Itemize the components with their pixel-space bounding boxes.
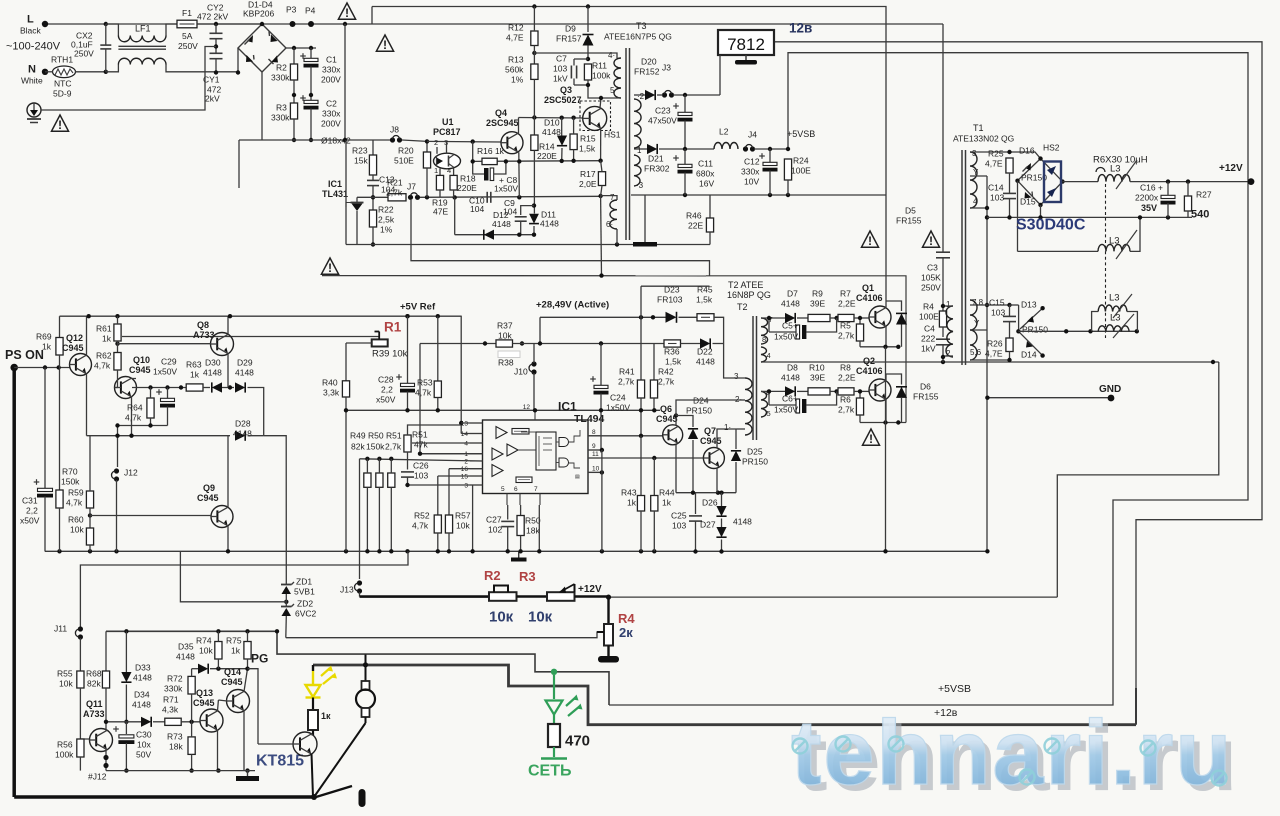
resistor R51b (404, 435, 411, 452)
label t1s 56 (970, 348, 982, 357)
svg-text:C25: C25 (671, 511, 687, 521)
resistor R53 (434, 381, 441, 398)
wire LF1 top lead l (106, 24, 119, 36)
svg-text:FR103: FR103 (657, 295, 683, 305)
junction rail551 449 (447, 549, 451, 553)
wire r72 down (191, 694, 193, 722)
label +5VSB top (787, 129, 815, 139)
wire col373d (372, 227, 374, 245)
svg-text:4148: 4148 (540, 219, 559, 229)
wire em drop (885, 347, 887, 423)
label ATE133N02 QG (953, 134, 1014, 144)
svg-text:39E: 39E (810, 373, 825, 383)
svg-text:D8: D8 (787, 363, 798, 373)
label 470 (565, 733, 590, 750)
label PR150 low (1022, 325, 1048, 335)
wire d33 down (125, 685, 127, 722)
junction rowA 540 (538, 341, 542, 345)
label 220E (457, 183, 477, 193)
svg-text:PR150: PR150 (742, 457, 768, 467)
wire row3 (346, 244, 710, 246)
svg-text:103: 103 (991, 308, 1005, 318)
wire q8 emit (227, 316, 229, 334)
svg-text:C5+: C5+ (782, 321, 798, 331)
capacitor C29 (156, 389, 175, 407)
junction r53 410 (436, 408, 440, 412)
svg-text:5D-9: 5D-9 (53, 89, 72, 99)
resistor R71 (165, 718, 181, 725)
wire T1 core a (961, 150, 963, 365)
svg-text:~100-240V: ~100-240V (6, 41, 61, 53)
transformer T1 sec upper (970, 152, 977, 208)
junction C2 botj (309, 138, 313, 142)
label R72 (167, 674, 183, 684)
wire l3b out (1130, 217, 1140, 251)
wire c5 out (806, 318, 837, 332)
junction 588 59 (586, 57, 590, 61)
wire t1 Y wire (970, 175, 987, 177)
junction q3e (598, 159, 602, 163)
wire c30 down (125, 743, 127, 771)
svg-text:560k: 560k (505, 65, 524, 75)
wire c9 link (521, 206, 534, 215)
svg-text:D29: D29 (237, 358, 253, 368)
terminal P4 (308, 21, 314, 27)
svg-text:9: 9 (592, 443, 596, 450)
junction pret 601 (599, 273, 603, 277)
svg-text:ZD1: ZD1 (296, 577, 312, 587)
svg-text:82k: 82k (351, 442, 365, 452)
wire p9 wire (588, 449, 602, 451)
wire c6 out (806, 391, 837, 405)
svg-text:4148: 4148 (542, 127, 561, 137)
wire r7 out (854, 317, 869, 319)
svg-text:x50V: x50V (20, 516, 40, 526)
junction er 7215 (719, 491, 723, 495)
wire c23 col (684, 95, 686, 112)
wire kt coll (312, 734, 314, 736)
transistor Q10 C945 (115, 377, 137, 399)
resistor R5 (856, 324, 863, 341)
wire t2 p2 wire2 (739, 399, 745, 401)
wire Q4 coll (518, 118, 520, 134)
wire N wire2 (75, 71, 106, 73)
resistor R13 (531, 64, 538, 79)
svg-text:R62: R62 (96, 351, 112, 361)
label Q4 (495, 108, 507, 118)
capacitor C6 (796, 399, 806, 413)
inductor LF1 top (118, 36, 166, 42)
svg-text:Q3: Q3 (560, 85, 572, 95)
wire T1 core b (965, 150, 967, 365)
label J10 (514, 367, 528, 377)
wire fan drop (365, 655, 367, 682)
junction rail551 507.7 (506, 549, 510, 553)
wire c25 down (695, 521, 697, 552)
wire em drop2 (885, 423, 887, 552)
wire r50 up (378, 459, 380, 473)
wire r17 bot (601, 186, 602, 197)
label 250V (178, 41, 198, 51)
svg-text:2,5k: 2,5k (378, 215, 395, 225)
svg-text:11: 11 (592, 451, 599, 458)
svg-text:C7: C7 (556, 54, 567, 64)
wire pg to kt (248, 669, 259, 744)
wire 454 down (454, 197, 456, 234)
junction 987 305 (985, 303, 989, 307)
junction R2 top (292, 46, 296, 50)
junction ref rail 407 (405, 314, 409, 318)
junction 987 217 (985, 215, 989, 219)
IC U2 TL494 box (483, 420, 589, 494)
label C28 (378, 375, 394, 385)
wire c30 col (125, 722, 127, 734)
svg-text:Q7: Q7 (704, 426, 716, 436)
wire q11 coll (105, 722, 107, 731)
wire r57 col (448, 469, 450, 515)
label 4 (608, 51, 615, 60)
junction C1 top (309, 46, 313, 50)
label D33 (135, 663, 151, 673)
label 1x50Vc6 (774, 405, 798, 415)
svg-text:R25: R25 (988, 149, 1004, 159)
junction p9 dot (600, 448, 604, 452)
wire vert 372 (371, 7, 373, 25)
junction crow 181 (179, 385, 183, 389)
svg-text:HS1: HS1 (604, 130, 621, 140)
junction r5 860 (858, 316, 862, 320)
wire r75 down (247, 659, 249, 669)
junction trio3 top (389, 457, 393, 461)
svg-text:D25: D25 (747, 447, 763, 457)
junction CY mid (214, 44, 218, 48)
svg-text:4148: 4148 (203, 368, 222, 378)
svg-text:D34: D34 (134, 690, 150, 700)
label 1% (511, 75, 524, 85)
junction t1p2 (941, 355, 945, 359)
label R6X30 (1093, 154, 1148, 165)
wire base row (473, 160, 601, 163)
wire +12V wire (1063, 181, 1099, 183)
label 10k (498, 331, 512, 341)
label 82k r68 (87, 679, 101, 689)
junction c24 410 (599, 408, 603, 412)
resistor R55 (77, 671, 84, 688)
wire r70 col (59, 368, 61, 491)
label 104 (381, 185, 395, 195)
wire primary return (322, 275, 706, 277)
svg-text:Q10: Q10 (133, 355, 150, 365)
wire r51 down (390, 487, 392, 551)
svg-text:C945: C945 (700, 436, 722, 446)
wire j12 down (116, 480, 118, 552)
label C3 (927, 263, 938, 273)
label 2,2 c31 (26, 506, 38, 516)
svg-text:·3: ·3 (636, 181, 644, 190)
svg-text:ATEE16N7P5 QG: ATEE16N7P5 QG (604, 32, 672, 42)
junction r27 top (1186, 179, 1190, 183)
svg-text:C945: C945 (197, 493, 219, 503)
label d18x42 (321, 136, 351, 146)
label Q3 (560, 85, 572, 95)
svg-text:1: 1 (434, 166, 438, 175)
label R70 (62, 467, 78, 477)
label 22E (688, 221, 703, 231)
transformer T2 sec upper (761, 318, 768, 344)
inductor L2 (714, 143, 738, 149)
svg-text:4148: 4148 (233, 429, 252, 439)
svg-text:R41: R41 (619, 367, 635, 377)
label 4,7k r53 (415, 388, 432, 398)
svg-text:D14: D14 (1021, 350, 1037, 360)
svg-text:R69: R69 (36, 332, 52, 342)
switch contact (359, 789, 366, 807)
resistor R26 (1006, 338, 1013, 352)
label A733 q8 (193, 330, 215, 340)
svg-text:FR157: FR157 (556, 34, 582, 44)
svg-text:150k: 150k (61, 477, 80, 487)
label R52 (414, 511, 430, 521)
svg-text:R26: R26 (987, 339, 1003, 349)
ground R4 (598, 656, 619, 663)
svg-text:ZD2: ZD2 (297, 599, 313, 609)
wire q14 coll (244, 669, 248, 692)
label R37 (497, 321, 513, 331)
label 100k (55, 750, 74, 760)
resistor R17 (598, 172, 605, 186)
label R2 red (484, 568, 501, 583)
junction d33 722 (124, 720, 128, 724)
label J4 (748, 130, 757, 140)
wire R18 bot (453, 190, 455, 197)
wire pin4 wire (412, 442, 483, 444)
wire fuse out (197, 23, 262, 25)
label C8 (499, 175, 517, 185)
svg-text:35V: 35V (1141, 203, 1157, 213)
pin 3 (464, 483, 482, 490)
potentiometer R39 R1 (372, 332, 388, 347)
diode D35 4148 (198, 664, 208, 674)
junction x345 top (343, 22, 347, 26)
wire r40 col (345, 343, 347, 381)
junction c5 769 (767, 316, 771, 320)
label IC1 (328, 179, 342, 189)
label R23 (352, 146, 368, 156)
svg-text:3: 3 (464, 483, 468, 490)
svg-text:R53: R53 (417, 378, 433, 388)
svg-text:1k: 1k (190, 370, 200, 380)
svg-text:T2 ATEE: T2 ATEE (728, 280, 763, 290)
wire r49 up (366, 459, 368, 473)
wire d25 up (735, 429, 737, 449)
label S30D40C (1016, 217, 1086, 234)
label t1s Y (973, 168, 979, 177)
resistor R22 (369, 210, 376, 227)
label R36 (664, 347, 680, 357)
svg-text:7812: 7812 (727, 35, 765, 54)
svg-text:!: ! (383, 38, 387, 52)
wire c6 drop (768, 391, 770, 405)
svg-text:White: White (21, 76, 43, 86)
capacitor C2 (300, 95, 318, 109)
junction r24 top (786, 147, 790, 151)
label J11 (54, 624, 67, 634)
transistor Q14 C945 (227, 690, 250, 713)
svg-text:Q4: Q4 (495, 108, 507, 118)
label C14 (988, 183, 1004, 193)
wire r27 down (1187, 211, 1189, 217)
svg-text:6: 6 (514, 486, 518, 493)
junction rail551 472.6 (470, 549, 474, 553)
wire c7 bot (574, 84, 588, 86)
wire d33 col (125, 631, 127, 672)
label R26 (987, 339, 1003, 349)
thermistor RTH1 (53, 66, 76, 78)
label D27 (700, 520, 716, 530)
svg-text:C1: C1 (326, 55, 337, 65)
wire U1 p3 (446, 141, 448, 153)
svg-text:J3: J3 (662, 63, 671, 73)
label R3 (276, 103, 287, 113)
label C15 (989, 298, 1005, 308)
svg-text:103: 103 (414, 471, 428, 481)
junction trio2 top (377, 457, 381, 461)
label 4148 d34 (132, 700, 151, 710)
svg-text:2,2: 2,2 (26, 506, 38, 516)
label R39 10k (372, 348, 408, 359)
wire x886 into box (885, 276, 887, 301)
wire rail195 (631, 194, 886, 196)
junction row425 150 (148, 423, 152, 427)
svg-text:2к: 2к (619, 625, 633, 640)
earth ground (27, 103, 41, 123)
svg-text:D10: D10 (544, 118, 560, 128)
svg-text:3: 3 (972, 149, 977, 158)
svg-text:1x50V: 1x50V (494, 184, 518, 194)
label PR150 hs2 (1021, 173, 1047, 183)
svg-text:18k: 18k (169, 742, 183, 752)
capacitor CX2 (100, 45, 111, 49)
label LF1 (135, 24, 151, 34)
label ZD2 (297, 599, 313, 609)
label R41 (619, 367, 635, 377)
wire col427 (426, 141, 428, 152)
junction cx2 top (104, 22, 108, 26)
svg-text:GND: GND (1099, 384, 1121, 395)
wire row2 (357, 196, 388, 198)
wire CX2 col2 (105, 49, 107, 72)
wire 7812 in (719, 55, 721, 95)
label СЕТЬ (528, 763, 572, 780)
svg-text:C4: C4 (924, 324, 935, 334)
capacitor C8 (484, 168, 494, 181)
junction c16 top (1166, 179, 1170, 183)
warning W4 (862, 231, 879, 248)
wire c24 col (600, 344, 602, 386)
wire r50 down (378, 487, 380, 551)
svg-text:·5: ·5 (764, 409, 771, 418)
wire d6 up (886, 374, 902, 385)
label R68 (86, 669, 102, 679)
junction rail28 653 (651, 315, 655, 319)
svg-text:PG: PG (251, 651, 268, 665)
junction row331 1066 (1064, 329, 1068, 333)
svg-text:C11: C11 (698, 159, 713, 169)
label R14 (539, 142, 555, 152)
ground PG (236, 771, 259, 781)
wire r14 down (533, 150, 535, 213)
wire row722 (106, 721, 142, 723)
label 47x50V (648, 116, 677, 126)
ground 7812 (735, 55, 757, 65)
label C30 (136, 730, 152, 740)
svg-text:TL431: TL431 (322, 189, 348, 199)
resistor R50b (517, 516, 524, 536)
pin 9 (588, 443, 600, 450)
svg-text:S30D40C: S30D40C (1016, 217, 1086, 234)
transistor Q12 C945 (70, 354, 92, 376)
label C7 (556, 54, 567, 64)
svg-text:16: 16 (461, 466, 469, 473)
wire row331 (1018, 330, 1136, 332)
label KT815 (256, 753, 304, 770)
wire p15 wire (438, 475, 483, 477)
wire r44 col (653, 458, 655, 496)
label Q12 (66, 333, 83, 343)
resistor R15 (570, 134, 577, 150)
capacitor C12 (759, 153, 777, 171)
wire t1 Y2 wire (970, 329, 987, 331)
svg-text:C23: C23 (655, 106, 671, 116)
label 1k r63 (190, 370, 200, 380)
svg-text:3: 3 (734, 372, 739, 381)
resistor R41 (637, 380, 644, 398)
svg-text:Y: Y (974, 319, 980, 328)
svg-text:4,7E: 4,7E (506, 33, 524, 43)
wire r4 c4 (942, 327, 944, 337)
wire t1 pin3 wire (970, 152, 1041, 159)
junction fan node (363, 662, 368, 667)
label 2200x (1135, 193, 1159, 203)
label FR155 d6 (913, 392, 939, 402)
junction r6 860 (858, 389, 862, 393)
label t3 7pin (610, 193, 615, 202)
label CY1 (203, 75, 220, 85)
svg-text:C945: C945 (221, 677, 243, 687)
label #J12 (88, 772, 107, 782)
label J7 (407, 182, 416, 192)
label Q13 (196, 688, 213, 698)
capacitor CY2 (210, 33, 223, 38)
junction r115 573 (571, 116, 575, 120)
pin 10 (588, 465, 600, 472)
junction 588 85 (586, 83, 590, 87)
svg-text:150k: 150k (366, 442, 385, 452)
svg-text:R14: R14 (539, 142, 555, 152)
svg-text:D9: D9 (565, 24, 576, 34)
label NTC (54, 79, 71, 89)
diode D26 4148 (716, 506, 726, 516)
junction rail551 437.8 (436, 549, 440, 553)
junction c6 769 (767, 389, 771, 393)
shunt-reg IC1 TL431 (346, 197, 364, 244)
svg-text:KBP206: KBP206 (243, 9, 274, 19)
wire col373c (372, 186, 374, 210)
resistor R60 (86, 528, 93, 545)
junction pson 58 (57, 365, 61, 369)
wire T2 core b (756, 316, 758, 440)
label Q2 (863, 356, 875, 366)
